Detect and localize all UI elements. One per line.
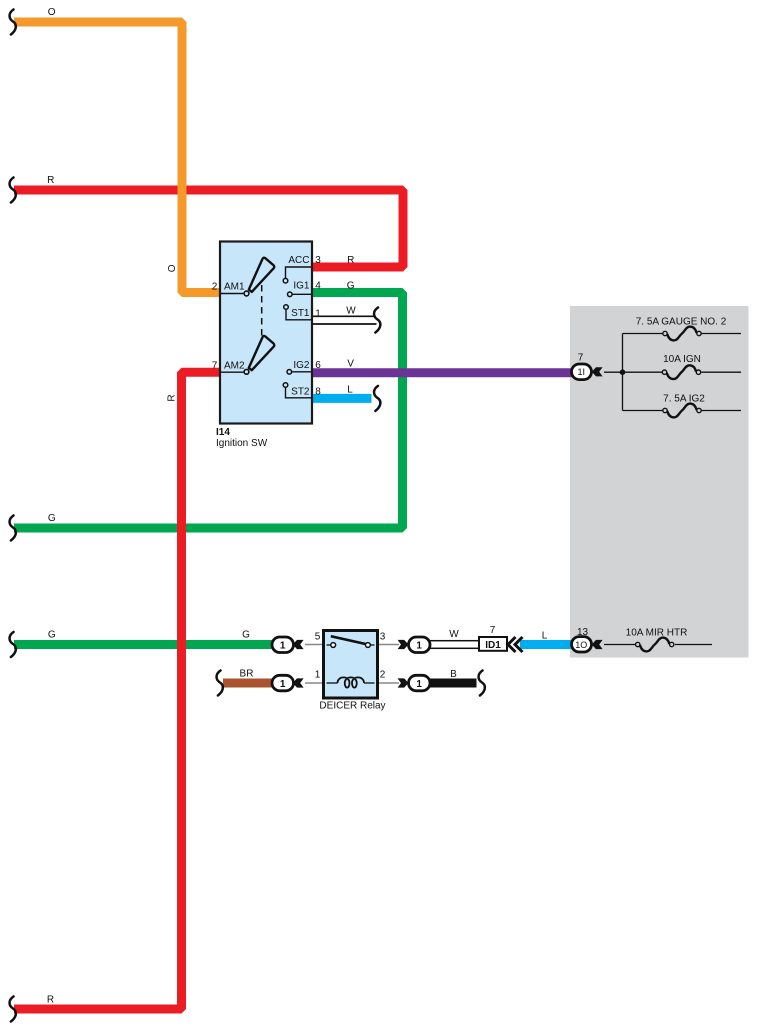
svg-text:1: 1 [315, 309, 321, 320]
wire-end squiggle R top [10, 178, 16, 203]
fuse 10A IGN [662, 365, 700, 379]
svg-text:G: G [347, 281, 355, 292]
AM2 lead [221, 371, 244, 373]
svg-text:R: R [47, 175, 54, 186]
svg-text:R: R [167, 394, 178, 401]
svg-text:Ignition SW: Ignition SW [216, 438, 268, 449]
svg-text:AM1: AM1 [224, 282, 245, 293]
svg-text:BR: BR [240, 669, 254, 680]
connector oval 1 (W wire) [409, 637, 431, 653]
wire-end squiggle O [10, 10, 16, 35]
arrow at 1I [592, 367, 603, 376]
arrow at 1O [592, 640, 603, 649]
relay pin 3 contact [366, 643, 371, 648]
ST1 contact lead [286, 310, 311, 320]
svg-text:ST2: ST2 [291, 386, 310, 397]
svg-text:IG1: IG1 [293, 281, 310, 292]
svg-text:L: L [542, 631, 548, 642]
fuse 10A MIR HTR [636, 638, 674, 652]
AM2 lever [249, 336, 274, 370]
node junction dot [620, 369, 626, 375]
IG1 contact [288, 292, 293, 297]
wire O from battery to AM1 [14, 22, 220, 293]
switch dashed line [261, 285, 263, 336]
relay pin 5 contact [331, 643, 336, 648]
svg-text:ST1: ST1 [291, 308, 310, 319]
connector oval 1O [572, 637, 592, 652]
wire-end squiggle L [374, 386, 380, 411]
svg-text:10A MIR HTR: 10A MIR HTR [626, 627, 688, 638]
svg-text:7. 5A GAUGE NO. 2: 7. 5A GAUGE NO. 2 [636, 316, 727, 327]
fuse 7.5A GAUGE NO.2 [663, 327, 701, 341]
svg-text:2: 2 [212, 282, 218, 293]
svg-text:1: 1 [315, 670, 321, 681]
AM1 contact [244, 291, 249, 296]
connector oval 1I [572, 364, 592, 380]
svg-text:ACC: ACC [288, 255, 309, 266]
wire-end squiggle G upper [10, 516, 16, 541]
node junction vertical line [622, 334, 624, 411]
wire fuse row IG2 [623, 410, 663, 412]
wire L from ID1 to connector 1O [520, 640, 572, 649]
svg-text:3: 3 [380, 632, 386, 643]
ignition switch I14 body [220, 242, 312, 424]
svg-text:7: 7 [578, 353, 584, 364]
wire B from relay pin 2 [429, 679, 477, 688]
connector oval 1 (green G wire) [272, 637, 294, 653]
svg-text:8: 8 [315, 387, 321, 398]
svg-text:ID1: ID1 [485, 640, 501, 651]
svg-text:W: W [449, 629, 459, 640]
wire-end squiggle G lower [10, 632, 16, 657]
svg-text:R: R [347, 255, 354, 266]
svg-text:3: 3 [315, 255, 321, 266]
wire-end squiggle B [479, 671, 485, 696]
svg-text:G: G [242, 630, 250, 641]
relay coil leads [327, 682, 338, 684]
wire W from ST1 pin 1 (white wire) [312, 315, 376, 317]
svg-text:1O: 1O [575, 640, 587, 650]
svg-text:G: G [48, 630, 56, 641]
svg-text:1I: 1I [578, 367, 586, 377]
wire fuse row MIR HTR [604, 644, 635, 646]
relay pin 5 lead [327, 644, 331, 646]
wire R from AM2 pin 7 down and left [14, 372, 220, 1009]
svg-text:O: O [167, 264, 178, 272]
wire R from battery to ACC [14, 190, 403, 267]
wire-end squiggle W [374, 308, 380, 333]
relay coil L1 [338, 677, 365, 687]
svg-text:IG2: IG2 [293, 360, 310, 371]
relay DEICER body [324, 631, 378, 699]
svg-text:4: 4 [315, 281, 321, 292]
ACC contact lead [286, 267, 312, 278]
arrow at relay pin 3 [398, 640, 409, 649]
wire V from IG2 pin 6 to connector 1I [312, 368, 572, 377]
ACC contact [283, 278, 288, 283]
svg-text:5: 5 [315, 632, 321, 643]
svg-text:I14: I14 [216, 427, 230, 438]
svg-text:10A IGN: 10A IGN [663, 354, 701, 365]
ST2 contact [283, 383, 288, 388]
svg-text:DEICER Relay: DEICER Relay [319, 701, 385, 712]
svg-text:W: W [346, 306, 356, 317]
wire G lower to deicer relay [14, 640, 273, 649]
svg-text:1: 1 [280, 679, 286, 690]
arrow at relay pin 1 [293, 678, 304, 687]
connector ID1 box [479, 637, 507, 651]
svg-text:1: 1 [416, 641, 422, 652]
ST1 contact [284, 305, 289, 310]
relay pin 3 lead [370, 644, 374, 646]
svg-text:1: 1 [280, 641, 286, 652]
svg-text:13: 13 [577, 627, 589, 638]
svg-text:7. 5A IG2: 7. 5A IG2 [663, 394, 705, 405]
wire-end squiggle R bottom [10, 997, 16, 1022]
svg-text:7: 7 [212, 361, 218, 372]
svg-text:V: V [347, 359, 354, 370]
fuse 7.5A IG2 [663, 404, 701, 418]
connector oval 1 (B wire) [409, 675, 431, 691]
svg-text:AM2: AM2 [224, 361, 245, 372]
svg-text:1: 1 [416, 679, 422, 690]
wire fuse row IGN [604, 371, 662, 373]
IG2 contact lead [292, 371, 311, 373]
svg-text:B: B [450, 669, 457, 680]
wire BR to relay pin 1 [223, 679, 273, 688]
wire G from IG1 pin 4 [14, 293, 403, 529]
svg-text:R: R [47, 995, 54, 1006]
IG1 contact lead [292, 293, 311, 295]
AM1 lever [249, 258, 274, 292]
wire-end squiggle BR [217, 671, 223, 696]
svg-text:O: O [48, 7, 56, 18]
IG2 contact [287, 370, 292, 375]
arrow at relay pin 5 [293, 640, 304, 649]
wire W from relay pin 3 to ID1 (white wire) [429, 641, 479, 649]
svg-text:6: 6 [315, 360, 321, 371]
wire L from ST2 pin 8 [312, 394, 372, 403]
fuse box (junction block) background [570, 306, 749, 658]
AM2 contact [244, 369, 249, 374]
svg-text:L: L [347, 385, 353, 396]
deicer relay leads gray [305, 644, 323, 646]
relay switch blade [331, 636, 366, 644]
wire fuse row GAUGE [623, 333, 663, 335]
connector oval 1 (BR wire) [272, 675, 294, 691]
svg-text:7: 7 [490, 625, 496, 636]
arrow at relay pin 2 [398, 678, 409, 687]
ST2 contact lead [286, 388, 312, 398]
svg-text:G: G [48, 513, 56, 524]
pin 2 AM1 lead [221, 293, 244, 295]
svg-text:2: 2 [380, 670, 386, 681]
chevrons at ID1 [508, 637, 523, 652]
